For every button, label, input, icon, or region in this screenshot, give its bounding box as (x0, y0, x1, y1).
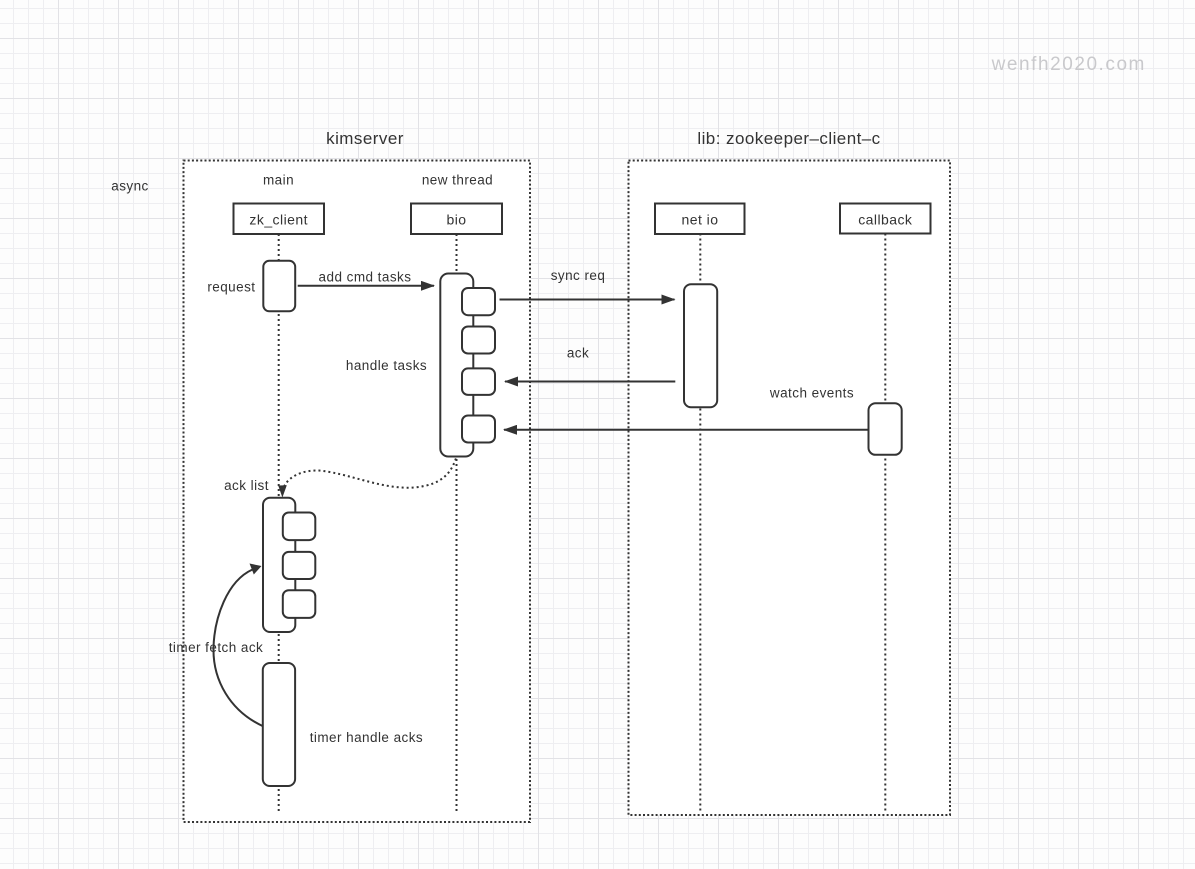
actor box: net io (655, 204, 745, 235)
lifeline: zk_client (278, 234, 280, 814)
svg-text:request: request (207, 280, 255, 295)
svg-text:new thread: new thread (422, 173, 493, 188)
actor box: bio (411, 204, 502, 235)
task box 3 on bio (462, 368, 495, 395)
task box 1 on bio (462, 288, 495, 315)
ack box 2 (283, 552, 316, 579)
lifeline: net io (699, 234, 701, 814)
activation: request bar on zk_client (263, 261, 295, 312)
svg-text:ack list: ack list (224, 478, 269, 493)
lifeline: bio (456, 234, 458, 813)
arrow: watch events (504, 386, 868, 430)
task box 2 on bio (462, 327, 495, 354)
activation: net io bar (684, 284, 717, 407)
svg-text:lib: zookeeper–client–c: lib: zookeeper–client–c (697, 129, 880, 148)
svg-text:kimserver: kimserver (326, 129, 404, 148)
activation: ack list bar (263, 498, 295, 632)
svg-text:ack: ack (567, 346, 589, 361)
svg-text:main: main (263, 173, 294, 188)
svg-text:handle tasks: handle tasks (346, 358, 427, 373)
svg-text:wenfh2020.com: wenfh2020.com (991, 54, 1146, 75)
task box 4 on bio (462, 416, 495, 443)
activation: bio tall bar (440, 274, 473, 457)
ack box 1 (283, 513, 316, 541)
curved arrow: timer fetch ack (213, 564, 262, 727)
lifeline: callback (884, 234, 886, 814)
svg-text:net io: net io (682, 211, 719, 227)
svg-text:add cmd tasks: add cmd tasks (319, 270, 412, 285)
svg-text:bio: bio (446, 211, 466, 227)
dotted curve: bio bottom to ack list (278, 459, 456, 498)
actor box: callback (840, 204, 931, 234)
arrow: add cmd tasks (298, 270, 434, 286)
actor box: zk_client (234, 204, 325, 235)
container: kimserver frame (184, 161, 531, 823)
arrow: sync req (500, 268, 675, 300)
svg-text:timer handle acks: timer handle acks (310, 730, 423, 745)
svg-text:timer fetch ack: timer fetch ack (169, 640, 264, 655)
svg-text:callback: callback (858, 211, 913, 227)
svg-text:watch events: watch events (769, 386, 854, 401)
arrow: ack (505, 346, 675, 382)
svg-text:zk_client: zk_client (249, 211, 308, 227)
activation: timer handle acks bar (263, 663, 295, 786)
svg-text:async: async (111, 179, 149, 194)
container: lib zookeeper-client-c frame (629, 161, 951, 816)
ack box 3 (283, 590, 316, 618)
activation: callback bar (869, 403, 902, 455)
svg-text:sync req: sync req (551, 268, 606, 283)
